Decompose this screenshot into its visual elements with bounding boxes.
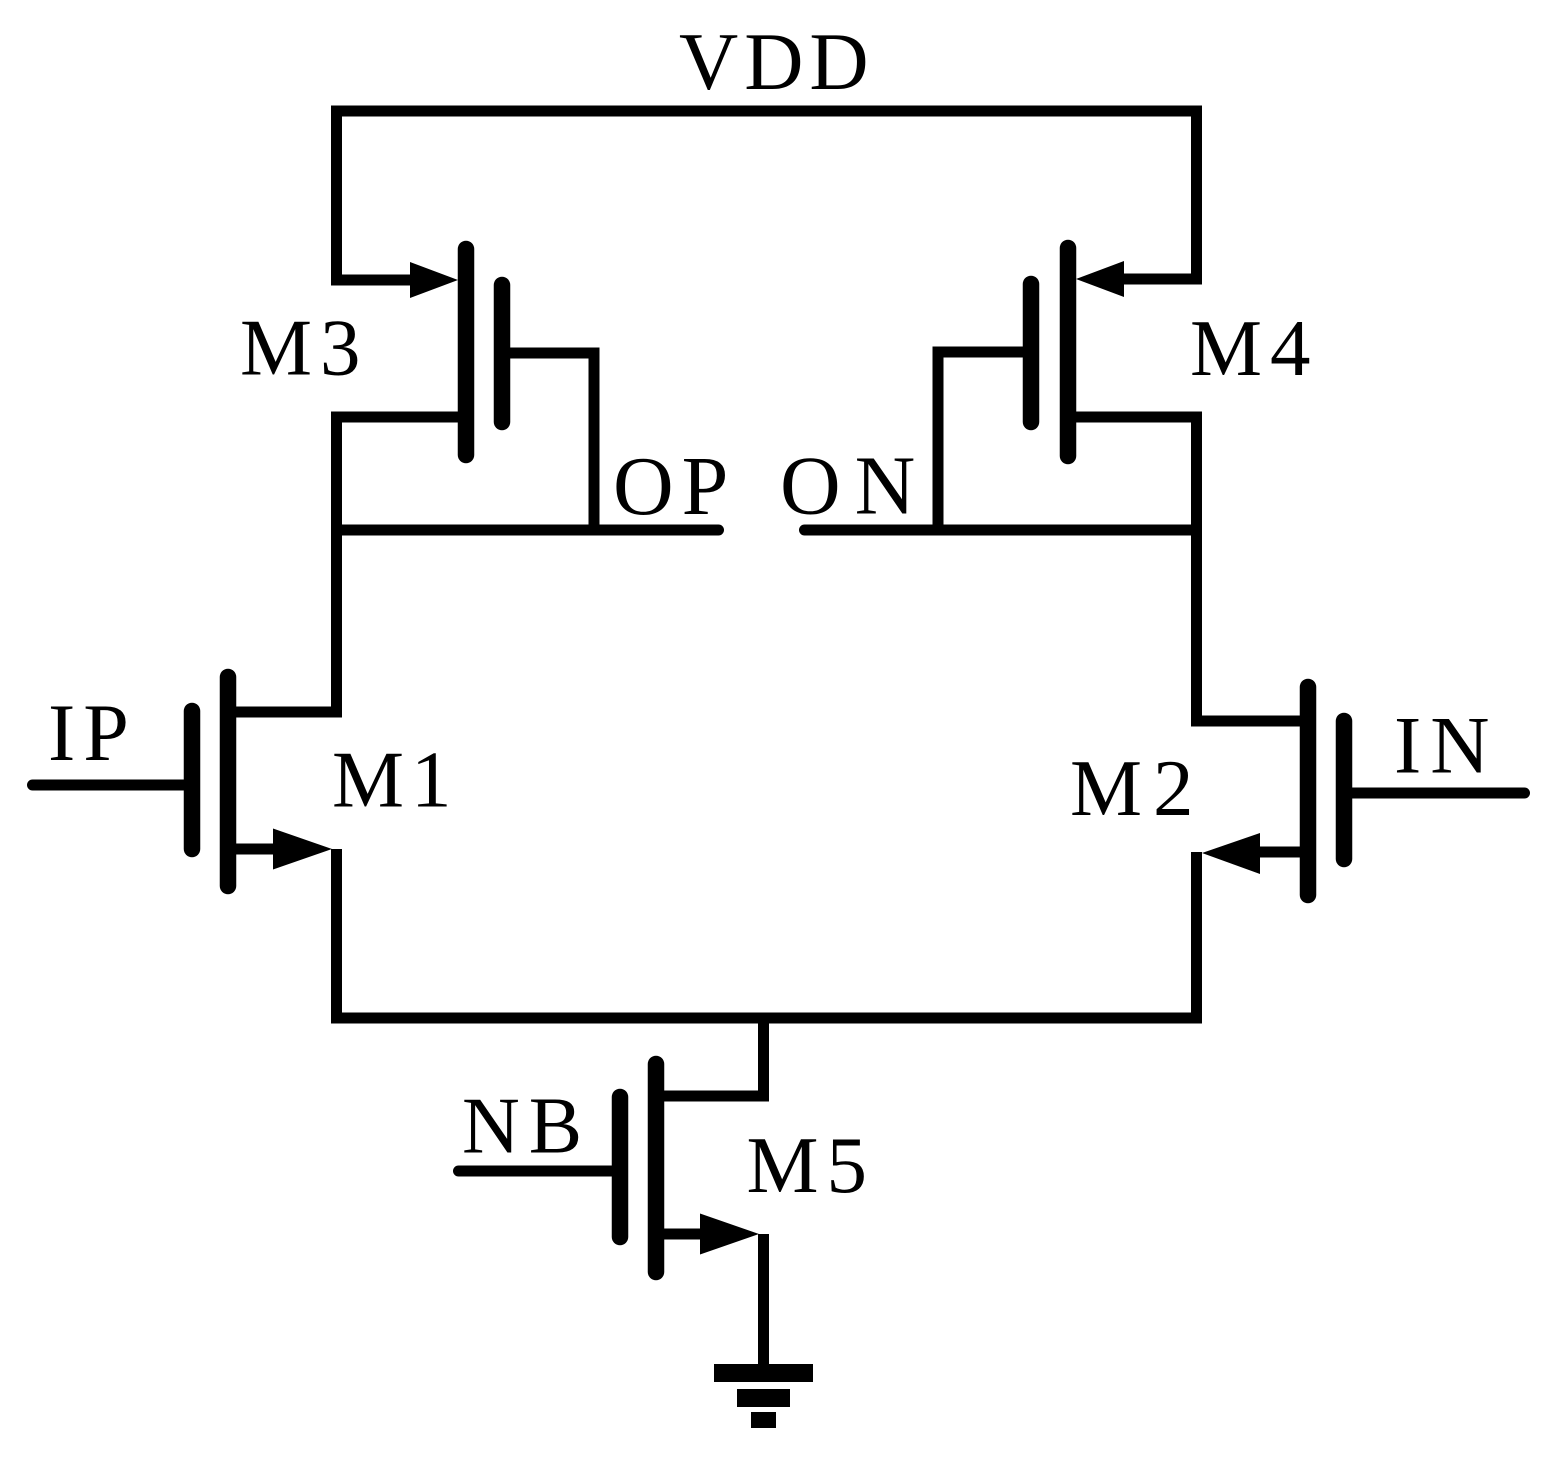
input IP lead [33, 780, 193, 791]
wire tail drop to M5 drain [656, 1013, 764, 1097]
wire VDD top rail [331, 106, 1202, 117]
transistor M2 [1197, 687, 1345, 895]
M5 source arrow [700, 1214, 759, 1255]
svg-text:IN: IN [1394, 700, 1499, 791]
transistor M4 [938, 248, 1202, 530]
M2 channel bar [1300, 687, 1317, 895]
wire right rail M4 drain to M2 drain [1191, 412, 1202, 727]
M3 gate bar [494, 285, 511, 422]
M4 channel bar [1060, 248, 1077, 456]
M2 source wire [1260, 847, 1300, 858]
svg-text:M5: M5 [747, 1120, 876, 1210]
wire right rail M2 source to tail [1191, 852, 1202, 1024]
svg-text:NB: NB [462, 1083, 591, 1171]
M3 source arrow [410, 262, 458, 298]
M4 drain wire [1076, 412, 1202, 423]
M5 channel bar [648, 1064, 665, 1272]
ground [714, 1364, 813, 1428]
svg-text:IP: IP [48, 687, 137, 778]
svg-text:VDD: VDD [679, 16, 875, 107]
svg-text:OP: OP [613, 440, 736, 533]
M2 source arrow [1202, 833, 1260, 874]
wire M5 source to ground [758, 1234, 769, 1373]
wire tail bottom rail [331, 1013, 1202, 1024]
svg-text:M1: M1 [332, 735, 459, 825]
M1 source arrow [273, 829, 332, 870]
wire left rail M1 source to tail [331, 849, 342, 1024]
input NB lead [459, 1166, 621, 1177]
M5 gate bar [612, 1097, 629, 1237]
M3 drain wire [331, 412, 458, 423]
M1 channel bar [220, 677, 237, 886]
svg-text:M2: M2 [1070, 743, 1205, 833]
M3 channel bar [458, 249, 475, 455]
transistor M1 [192, 677, 342, 886]
wire right VDD drop to M4 source [1124, 106, 1197, 280]
M1 drain wire [236, 707, 342, 718]
wire left VDD drop to M3 source [337, 106, 414, 281]
svg-text:M3: M3 [240, 303, 369, 393]
M1 source wire [236, 844, 278, 855]
M3 gate wire to OP [502, 353, 594, 530]
svg-text:M4: M4 [1190, 303, 1319, 393]
transistor M5 [620, 1064, 759, 1272]
input IN lead [1344, 788, 1525, 799]
M4 source arrow [1076, 261, 1124, 297]
transistor M3 [331, 249, 594, 530]
M4 gate bar [1023, 284, 1040, 422]
wire left rail M3 drain to M1 drain [331, 412, 342, 718]
node OP stub [337, 525, 719, 536]
M5 source wire [656, 1229, 705, 1240]
M2 drain wire [1197, 716, 1301, 727]
M4 gate wire to ON [938, 352, 1031, 530]
node ON stub [805, 525, 1197, 536]
M1 gate bar [184, 711, 201, 849]
svg-text:ON: ON [780, 440, 929, 533]
M2 gate bar [1336, 721, 1353, 859]
